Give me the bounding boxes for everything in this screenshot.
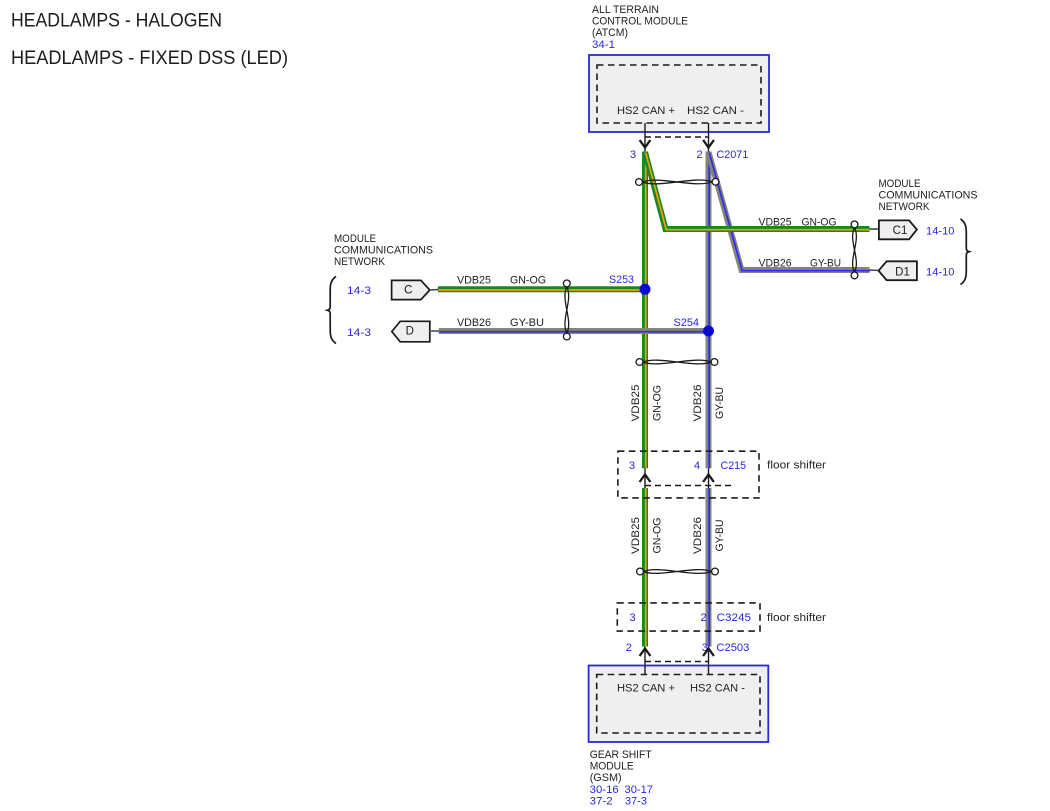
module U2 GSM box xyxy=(589,666,769,743)
svg-text:GY-BU: GY-BU xyxy=(510,317,544,329)
wire VDB26 vertical (gray-blue) lower xyxy=(706,488,713,647)
right brace xyxy=(961,219,970,285)
connector C2071 dashed bracket xyxy=(645,136,709,138)
stub to D1 xyxy=(870,269,880,272)
svg-text:VDB25: VDB25 xyxy=(630,385,642,422)
wire VDB26 vertical (gray-blue) upper xyxy=(706,152,713,469)
module U2 GSM label xyxy=(590,749,653,807)
svg-text:COMMUNICATIONS: COMMUNICATIONS xyxy=(879,190,978,202)
svg-text:VDB25: VDB25 xyxy=(759,217,792,229)
module U2 GSM inner dashed box xyxy=(597,675,760,734)
svg-text:14-10: 14-10 xyxy=(926,226,955,238)
arrowhead down pin 2 xyxy=(703,140,714,148)
svg-text:VDB26: VDB26 xyxy=(692,385,704,422)
svg-text:C: C xyxy=(404,285,412,297)
wire VDB26 row D horizontal to S254 xyxy=(439,328,709,335)
svg-text:37-3: 37-3 xyxy=(625,795,647,807)
pin stub line ATCM pin 2 xyxy=(708,123,710,152)
svg-text:VDB26: VDB26 xyxy=(457,317,491,329)
svg-text:2: 2 xyxy=(626,642,632,654)
arrowhead down pin 3 xyxy=(640,140,651,148)
svg-text:C215: C215 xyxy=(721,460,747,472)
svg-text:GY-BU: GY-BU xyxy=(714,387,726,419)
wire VDB25 diagonal + horizontal to C1 xyxy=(645,152,870,230)
connector C215 inner dashed line xyxy=(645,485,732,487)
connector C2503 dashed bracket xyxy=(645,661,709,663)
pin stub into GSM right xyxy=(708,666,710,676)
svg-text:floor shifter: floor shifter xyxy=(767,460,826,472)
twisted pair symbol T1 horizontal top xyxy=(636,178,719,185)
wire VDB26 diagonal + horizontal to D1 xyxy=(709,152,871,271)
twisted pair symbol T5 vertical right xyxy=(851,221,858,279)
left network label MODULE COMMUNICATIONS NETWORK xyxy=(334,233,433,268)
left brace xyxy=(327,277,336,344)
svg-text:GY-BU: GY-BU xyxy=(810,258,841,270)
splice S253 xyxy=(640,284,651,295)
twisted pair symbol T4 vertical left xyxy=(563,280,570,340)
svg-text:(GSM): (GSM) xyxy=(590,772,622,784)
svg-text:D1: D1 xyxy=(895,266,910,278)
svg-text:HS2 CAN +: HS2 CAN + xyxy=(617,105,675,117)
svg-text:HEADLAMPS - FIXED DSS (LED): HEADLAMPS - FIXED DSS (LED) xyxy=(11,47,288,69)
svg-text:14-10: 14-10 xyxy=(926,267,955,279)
svg-text:2: 2 xyxy=(700,612,706,624)
wire VDB25 vertical (green) upper xyxy=(642,152,649,469)
stub to C1 xyxy=(870,228,880,230)
connector D1 pentagon xyxy=(879,261,917,280)
stub from C to wire xyxy=(430,289,439,292)
svg-text:NETWORK: NETWORK xyxy=(334,256,386,268)
svg-text:37-2: 37-2 xyxy=(590,795,613,807)
svg-text:2: 2 xyxy=(696,149,702,161)
pin stub into GSM left xyxy=(644,666,646,676)
connector C pentagon xyxy=(392,280,430,299)
svg-text:VDB26: VDB26 xyxy=(759,258,792,270)
connector C215 dashed box xyxy=(618,451,759,498)
pin stub line GSM right xyxy=(708,647,710,676)
svg-text:3: 3 xyxy=(630,149,636,161)
splice S254 xyxy=(703,326,714,337)
svg-text:MODULE: MODULE xyxy=(879,178,921,190)
arrowhead up C215 pin 4 xyxy=(703,475,714,483)
connector C1 pentagon xyxy=(879,220,917,239)
module U1 ATCM box xyxy=(589,55,769,132)
svg-text:GN-OG: GN-OG xyxy=(652,385,664,421)
svg-text:14-3: 14-3 xyxy=(347,327,371,339)
svg-text:HS2 CAN -: HS2 CAN - xyxy=(690,683,745,695)
svg-text:GN-OG: GN-OG xyxy=(802,217,837,229)
arrowhead up GSM pin 2 xyxy=(640,649,651,657)
svg-text:3: 3 xyxy=(629,612,635,624)
svg-text:MODULE: MODULE xyxy=(334,233,376,245)
module U1 ATCM label xyxy=(592,4,688,51)
connector C3245 dashed box xyxy=(617,603,760,631)
svg-text:HEADLAMPS - HALOGEN: HEADLAMPS - HALOGEN xyxy=(11,10,222,32)
svg-text:C2503: C2503 xyxy=(716,642,749,654)
svg-text:14-3: 14-3 xyxy=(347,285,371,297)
svg-text:C2071: C2071 xyxy=(716,149,748,161)
stub from D to wire xyxy=(430,330,440,332)
connector D pentagon xyxy=(392,321,430,342)
svg-text:(ATCM): (ATCM) xyxy=(592,27,628,39)
svg-text:HS2 CAN -: HS2 CAN - xyxy=(687,105,744,117)
svg-text:GN-OG: GN-OG xyxy=(510,275,546,287)
svg-text:VDB25: VDB25 xyxy=(457,275,491,287)
arrowhead up C215 pin 3 xyxy=(640,475,651,483)
svg-text:C1: C1 xyxy=(893,225,908,237)
svg-text:S253: S253 xyxy=(609,274,634,286)
svg-text:MODULE: MODULE xyxy=(590,761,634,773)
twisted pair symbol T3 horizontal lower xyxy=(637,568,719,575)
svg-text:GEAR SHIFT: GEAR SHIFT xyxy=(590,749,652,761)
pin stub line GSM left xyxy=(644,647,646,676)
svg-text:VDB26: VDB26 xyxy=(692,517,704,554)
svg-text:floor shifter: floor shifter xyxy=(767,612,826,624)
twisted pair symbol T2 horizontal middle xyxy=(636,359,718,366)
svg-text:GN-OG: GN-OG xyxy=(652,518,664,554)
svg-text:VDB25: VDB25 xyxy=(630,517,642,554)
svg-text:CONTROL MODULE: CONTROL MODULE xyxy=(592,16,688,28)
svg-text:GY-BU: GY-BU xyxy=(714,519,726,551)
svg-text:D: D xyxy=(406,326,414,338)
wire VDB25 row C horizontal to S253 xyxy=(438,286,645,293)
svg-text:30-17: 30-17 xyxy=(625,784,654,796)
module U1 ATCM inner dashed box xyxy=(597,65,761,123)
svg-text:HS2 CAN +: HS2 CAN + xyxy=(617,683,675,695)
pin stub line ATCM pin 3 xyxy=(644,123,646,152)
pin stub line C215 left xyxy=(644,468,646,488)
svg-text:30-16: 30-16 xyxy=(590,784,619,796)
right network label MODULE COMMUNICATIONS NETWORK xyxy=(879,178,978,213)
svg-text:34-1: 34-1 xyxy=(592,39,615,51)
svg-text:4: 4 xyxy=(694,460,700,472)
svg-text:C3245: C3245 xyxy=(717,612,751,624)
arrowhead up GSM pin 3 xyxy=(703,649,714,657)
svg-text:3: 3 xyxy=(629,460,635,472)
svg-text:S254: S254 xyxy=(674,317,700,329)
wire VDB25 vertical (green) lower xyxy=(642,488,649,647)
svg-text:COMMUNICATIONS: COMMUNICATIONS xyxy=(334,245,433,257)
pin stub line C215 right xyxy=(708,468,710,488)
svg-text:ALL TERRAIN: ALL TERRAIN xyxy=(592,4,659,16)
svg-text:NETWORK: NETWORK xyxy=(879,201,931,213)
